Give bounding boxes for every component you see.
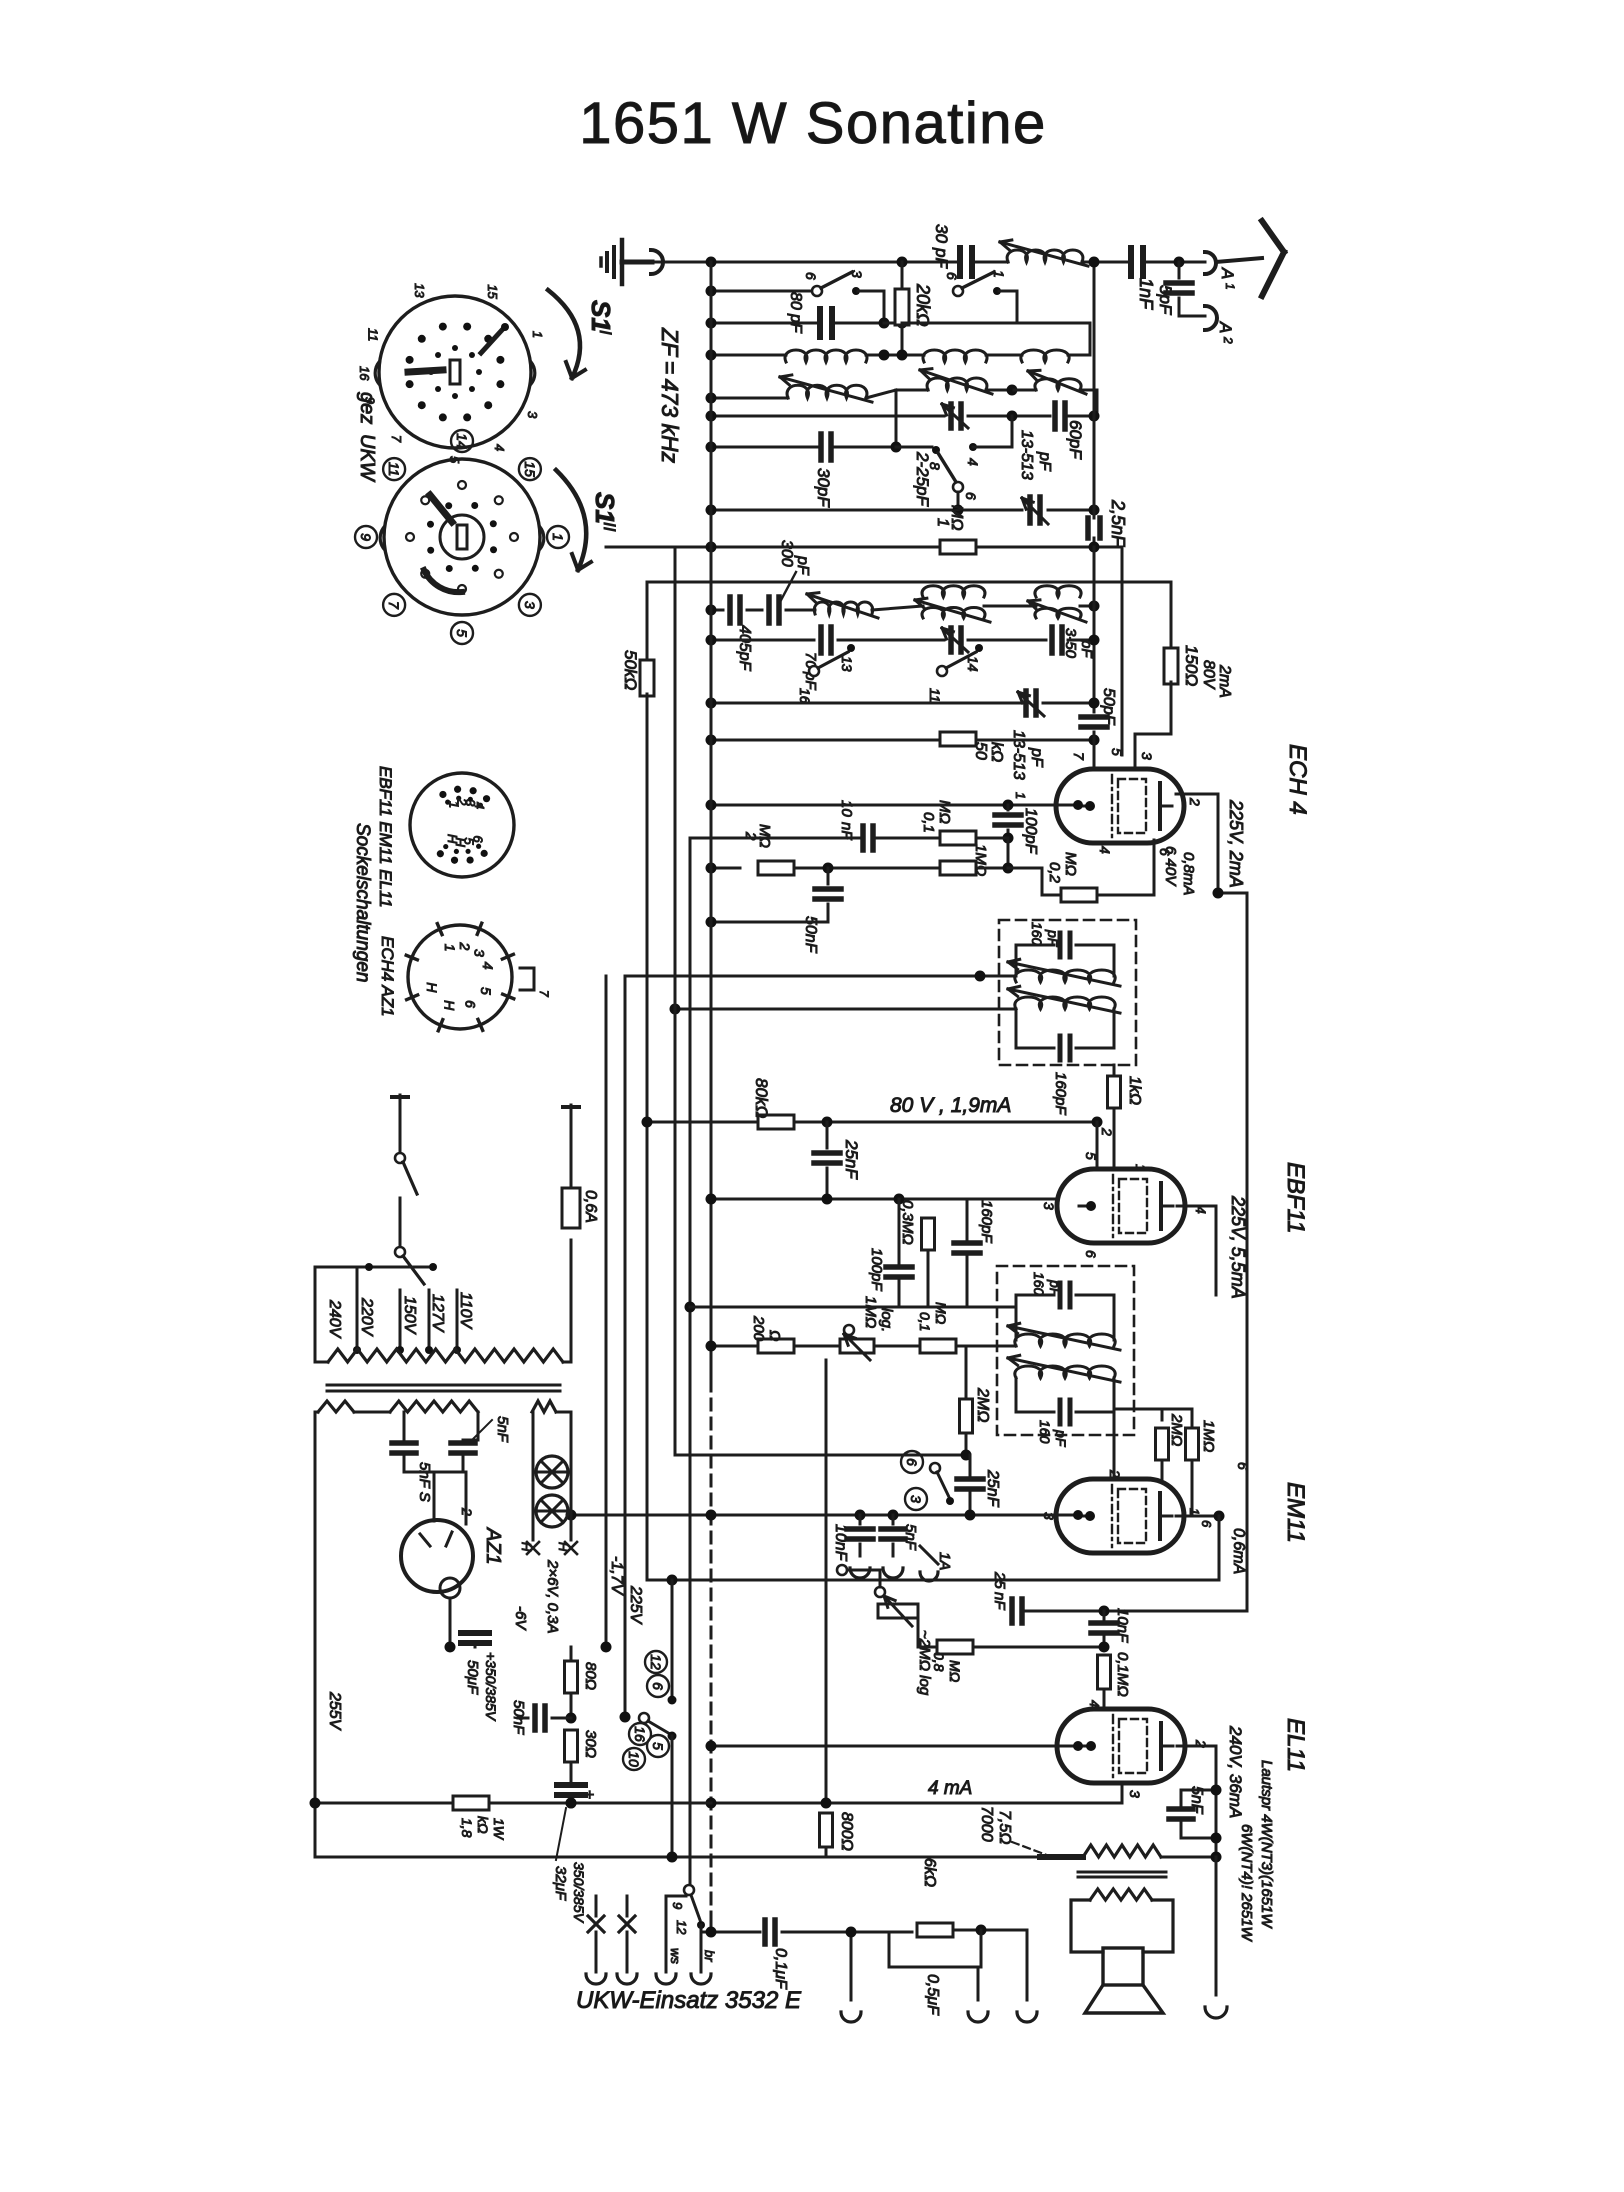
svg-text:H: H: [556, 1542, 571, 1552]
capacitor 25nF: [826, 1122, 829, 1148]
svg-text:10: 10: [838, 800, 855, 817]
wire row y=447 30pF: [711, 446, 818, 449]
svg-text:I: I: [596, 330, 615, 335]
secondary heater winding: [532, 1401, 556, 1412]
output transformer primary: [1083, 1845, 1161, 1857]
IF2 secondary tuned coil: [1015, 997, 1115, 1009]
svg-text:50μF: 50μF: [464, 1660, 481, 1695]
wire row y=805 grid: [711, 804, 1078, 807]
svg-text:gez: gez: [356, 392, 378, 424]
transformer core: [1078, 1871, 1166, 1874]
svg-text:MΩ: MΩ: [933, 1302, 949, 1325]
resistor 80Ohm: [565, 1661, 578, 1693]
wire EM11 right pin: [1176, 1515, 1219, 1518]
capacitor 10nF ratio: [859, 1515, 862, 1524]
svg-text:5: 5: [650, 1742, 666, 1750]
wire row y=922: [711, 921, 828, 924]
capacitor 25nF af: [957, 1476, 983, 1482]
svg-text:pF: pF: [1047, 1279, 1063, 1298]
wire: [1082, 261, 1128, 264]
rectifier AZ1: [401, 1520, 473, 1592]
plug connector: [651, 250, 663, 274]
svg-text:11: 11: [365, 328, 380, 342]
capacitor 100pF: [1007, 805, 1010, 810]
capacitor 50pF grid: [1081, 714, 1107, 720]
capacitor 60pF: [1052, 403, 1058, 429]
wire 5nF join: [404, 1471, 463, 1474]
wire into box: [625, 975, 1016, 978]
svg-text:13-513: 13-513: [1018, 430, 1035, 480]
speaker: [1103, 1948, 1143, 1985]
svg-text:160: 160: [1029, 922, 1045, 946]
wire stub from coil row to row C: [895, 390, 898, 447]
svg-text:H: H: [445, 834, 460, 844]
svg-text:2MΩ: 2MΩ: [1168, 1413, 1185, 1446]
resistor 2MOhm: [758, 861, 794, 875]
svg-text:10nF: 10nF: [1114, 1608, 1131, 1643]
antenna connector A2: [1205, 306, 1217, 330]
svg-text:4: 4: [492, 444, 507, 451]
svg-text:1: 1: [991, 270, 1007, 278]
svg-text:0,5μF: 0,5μF: [924, 1974, 941, 2016]
svg-text:3: 3: [1041, 1202, 1057, 1210]
svg-text:ECH 4: ECH 4: [1284, 744, 1311, 815]
capacitor 0.1uF: [762, 1920, 768, 1944]
antenna connector A1: [1205, 252, 1216, 274]
S1_II rotation arrow: [556, 470, 586, 570]
svg-text:80 V , 1,9mA: 80 V , 1,9mA: [890, 1094, 1011, 1117]
svg-text:H: H: [519, 1542, 534, 1552]
capacitor 160pF top2: [1016, 1295, 1054, 1340]
selector taps: [356, 1290, 359, 1350]
svg-text:pF: pF: [1036, 451, 1053, 472]
svg-text:6: 6: [650, 1682, 666, 1690]
capacitor 5nF b: [451, 1440, 475, 1446]
svg-text:2: 2: [1187, 797, 1203, 806]
svg-text:150Ω: 150Ω: [1182, 645, 1201, 686]
wire row y=510: [711, 509, 1022, 512]
switch S1 contact 6-3: [812, 286, 822, 296]
svg-text:25nF: 25nF: [842, 1139, 861, 1180]
svg-text:3: 3: [471, 949, 487, 957]
svg-text:2×6V, 0,3A: 2×6V, 0,3A: [544, 1559, 561, 1634]
svg-text:0,3MΩ: 0,3MΩ: [899, 1200, 916, 1245]
circled 6: [647, 1675, 669, 1697]
svg-text:3: 3: [1139, 752, 1155, 760]
svg-text:kΩ: kΩ: [988, 742, 1005, 762]
potentiometer 2MOhm log: [878, 1604, 918, 1618]
svg-text:800Ω: 800Ω: [838, 1812, 855, 1851]
svg-text:6 40V: 6 40V: [1162, 846, 1179, 887]
mains input stub 1: [399, 1095, 402, 1152]
svg-text:80kΩ: 80kΩ: [752, 1078, 771, 1118]
svg-text:7: 7: [1071, 752, 1087, 761]
svg-text:H: H: [442, 1000, 458, 1011]
wire screen row y=893: [1218, 892, 1247, 895]
oscillator feed vertical x=1094: [1093, 262, 1096, 518]
secondary rectifier winding: [390, 1401, 478, 1412]
svg-text:ZF = 473 kHz: ZF = 473 kHz: [657, 327, 683, 464]
capacitor 160pF bottom: [1016, 1009, 1054, 1048]
svg-text:log.: log.: [878, 1308, 895, 1332]
speaker ground hooks: [977, 1967, 980, 2000]
svg-text:Lautspr 4W(NT3)(1651W: Lautspr 4W(NT3)(1651W: [1258, 1760, 1275, 1929]
IF coil row 1b tuned: [711, 397, 788, 400]
svg-text:1W: 1W: [491, 1818, 507, 1841]
circled 12: [645, 1651, 667, 1673]
capacitor 5nF ratio: [892, 1515, 895, 1524]
svg-text:20kΩ: 20kΩ: [913, 283, 933, 327]
wire: [1143, 261, 1205, 264]
svg-text:pF: pF: [1078, 639, 1095, 658]
resistor 1MOhm: [940, 540, 976, 554]
resistor 2MOhm eye: [1156, 1428, 1169, 1460]
svg-text:6: 6: [1083, 1250, 1099, 1258]
voltage selector bracket: [314, 1267, 317, 1362]
svg-text:14: 14: [454, 433, 470, 449]
wire 5nF top: [1180, 1790, 1183, 1802]
svg-text:5: 5: [454, 629, 470, 637]
svg-text:pF: pF: [1028, 747, 1045, 768]
svg-text:nF: nF: [838, 822, 855, 840]
wire row y=1346 volume: [711, 1345, 758, 1348]
capacitor 32uF: [557, 1782, 585, 1788]
svg-text:1651 W Sonatine: 1651 W Sonatine: [579, 91, 1046, 156]
loop 0.5uF: [889, 1930, 981, 1967]
label 5nF: [472, 1420, 492, 1440]
capacitor 25nF out: [1009, 1599, 1015, 1623]
svg-text:5nF: 5nF: [494, 1416, 511, 1443]
svg-text:1: 1: [530, 331, 545, 338]
wire EL11 grid row: [711, 1745, 1078, 1748]
svg-text:-6V: -6V: [512, 1606, 529, 1631]
svg-text:1MΩ: 1MΩ: [1200, 1420, 1217, 1452]
svg-text:4: 4: [480, 962, 496, 970]
resistor 1.8kOhm: [453, 1796, 489, 1810]
tube ECH4: [1056, 769, 1184, 843]
svg-text:50: 50: [972, 742, 989, 760]
wire 5nF: [1180, 1825, 1183, 1838]
S1_I contact dots: [496, 356, 504, 364]
speaker wiring: [1071, 1900, 1103, 1952]
vertical heater line a: [646, 740, 649, 1580]
svg-text:80: 80: [787, 292, 804, 310]
svg-text:3: 3: [1127, 1790, 1143, 1798]
wire 405pF row y=610: [711, 609, 723, 612]
svg-text:160: 160: [1037, 1420, 1053, 1444]
svg-text:225V, 2mA: 225V, 2mA: [1226, 799, 1246, 888]
resistor 50kOhm vertical: [640, 660, 654, 696]
mains switch 1: [395, 1153, 405, 1163]
svg-text:4: 4: [965, 458, 981, 466]
fuse 0.6A: [570, 1240, 573, 1362]
svg-text:MΩ: MΩ: [936, 800, 953, 824]
wire row y=323: [711, 322, 820, 325]
svg-text:0,1μF: 0,1μF: [772, 1948, 789, 1990]
resistor 1kOhm: [1113, 1065, 1116, 1076]
capacitor 5nF tone: [1169, 1806, 1193, 1812]
svg-text:1: 1: [1187, 1508, 1202, 1515]
wire pin6 down: [1153, 840, 1156, 893]
resistor 6kOhm: [917, 1923, 953, 1937]
svg-text:7,5Ω: 7,5Ω: [996, 1810, 1013, 1844]
svg-text:pF: pF: [932, 247, 951, 269]
ground symbol: [620, 240, 625, 284]
svg-text:60pF: 60pF: [1066, 420, 1085, 460]
vertical 225V line: [624, 976, 627, 1717]
svg-text:50kΩ: 50kΩ: [621, 650, 640, 690]
svg-text:150V: 150V: [401, 1296, 418, 1335]
svg-text:80V: 80V: [1200, 660, 1217, 690]
svg-text:EBF11: EBF11: [1282, 1162, 1309, 1234]
transformer primary winding: [328, 1349, 563, 1362]
wire row y=703: [711, 702, 1022, 705]
wire down to pin5: [1121, 547, 1124, 755]
IF coil row 1a: [711, 354, 786, 357]
rotary switch wafer S1_I outline: [379, 296, 531, 448]
svg-text:6: 6: [803, 272, 819, 280]
svg-text:80Ω: 80Ω: [582, 1662, 599, 1690]
switch contacts 8-4-6: [969, 443, 977, 451]
svg-text:ECH4 AZ1: ECH4 AZ1: [378, 936, 397, 1017]
S1_II center slot: [457, 525, 467, 549]
resistor 0.2MOhm: [1061, 888, 1097, 902]
svg-text:0,8mA: 0,8mA: [1180, 852, 1197, 895]
svg-text:pF: pF: [794, 555, 811, 576]
resistor 30Ohm: [565, 1730, 578, 1762]
capacitor 3-50pF: [1049, 627, 1055, 653]
svg-text:4 mA: 4 mA: [928, 1778, 972, 1799]
svg-text:+: +: [585, 1787, 594, 1804]
wire band switch row y=291: [711, 290, 812, 293]
svg-text:Ω: Ω: [766, 1330, 783, 1341]
svg-text:1kΩ: 1kΩ: [1126, 1076, 1143, 1105]
antenna terminal X2: [626, 1896, 629, 1916]
svg-text:16: 16: [357, 366, 372, 381]
svg-text:160: 160: [1031, 1272, 1047, 1296]
svg-text:5: 5: [478, 987, 494, 995]
svg-text:240V, 36mA: 240V, 36mA: [1226, 1725, 1245, 1818]
wire row y=1803 cathode: [711, 1802, 1122, 1805]
vertical 50k feed: [646, 582, 649, 662]
svg-text:II: II: [600, 522, 619, 532]
wire eye top: [1161, 1409, 1164, 1420]
svg-text:MΩ: MΩ: [947, 1660, 963, 1683]
svg-text:nF: nF: [991, 1592, 1008, 1610]
svg-text:15: 15: [485, 284, 500, 299]
resistor 20kOhm: [895, 289, 909, 325]
wire y=1580 heater run: [647, 1579, 1219, 1582]
coil pair C3: [1035, 586, 1081, 597]
dashed box IF transformer: [999, 920, 1136, 1065]
svg-text:1: 1: [1223, 283, 1237, 290]
label 32uF 350/385V: [556, 1808, 566, 1860]
svg-text:5pF: 5pF: [1156, 285, 1175, 316]
svg-text:13: 13: [412, 283, 427, 298]
svg-text:25nF: 25nF: [984, 1469, 1001, 1508]
pilot lamps: [536, 1456, 568, 1488]
capacitor 80pF: [817, 309, 823, 337]
S1_I rotation arrow: [548, 290, 580, 378]
secondary HV winding: [318, 1401, 354, 1412]
svg-text:1nF: 1nF: [1136, 278, 1156, 310]
switch circled 6/3: [901, 1451, 923, 1473]
wire eye grid: [1161, 1460, 1164, 1479]
svg-text:5: 5: [1083, 1152, 1099, 1160]
svg-text:2: 2: [1221, 336, 1235, 344]
switch 5/16/10: [639, 1713, 649, 1723]
svg-text:0,6A: 0,6A: [582, 1190, 599, 1223]
svg-text:pF: pF: [1053, 1429, 1069, 1448]
wire EBF11 plate: [1177, 1205, 1216, 1208]
wire row y=838: [690, 837, 860, 840]
socket key symbol: [520, 968, 534, 990]
wire EL11 cathode: [1121, 1783, 1124, 1803]
capacitor 70pF: [818, 627, 824, 653]
S1_I center slot: [450, 360, 460, 384]
wire switch to rail: [671, 1736, 674, 1857]
resistor 80kOhm: [758, 1115, 794, 1129]
trimmer capacitor 13-513pF: [1027, 497, 1033, 523]
svg-text:S1: S1: [590, 492, 620, 524]
resistor 1MOhm eye: [1186, 1428, 1199, 1460]
svg-text:5nF S: 5nF S: [416, 1462, 433, 1502]
wire plate pin2: [1176, 793, 1218, 796]
svg-text:3: 3: [908, 1495, 924, 1503]
coil pair C2: [922, 586, 985, 597]
svg-text:10: 10: [626, 1751, 642, 1767]
IF3 primary tuned coil: [1015, 1334, 1115, 1346]
svg-text:225V, 5,5mA: 225V, 5,5mA: [1228, 1195, 1248, 1299]
svg-text:8: 8: [927, 462, 943, 470]
dashed box IF transformer 2: [997, 1266, 1134, 1435]
svg-text:3-50: 3-50: [1062, 628, 1079, 659]
resistor 0.1MOhm af: [920, 1339, 956, 1353]
wire y=1455 to switch 6: [675, 1454, 970, 1457]
vertical x=690: [689, 838, 692, 1886]
svg-text:UKW: UKW: [356, 434, 378, 483]
wire AZ1 plate: [433, 1472, 436, 1521]
svg-text:2: 2: [457, 941, 473, 950]
svg-text:225V: 225V: [627, 1585, 644, 1625]
svg-text:EBF11 EM11 EL11: EBF11 EM11 EL11: [376, 766, 395, 908]
tuning indicator arrow: [920, 1546, 938, 1564]
wire row y=1515 eye grid: [571, 1514, 1078, 1517]
resistor 50kOhm: [940, 732, 976, 746]
antenna terminal X1: [595, 1896, 598, 1916]
capacitor 50nF: [827, 868, 830, 884]
capacitor 5pF: [1178, 262, 1181, 278]
svg-text:12: 12: [648, 1654, 664, 1670]
tuned coil C1: [814, 602, 872, 614]
transformer core lines: [327, 1384, 560, 1387]
trimmer capacitor 13-513pF lower: [1023, 691, 1029, 715]
vertical volume return x=826: [825, 1360, 828, 1803]
wire secondary: [675, 1008, 1016, 1011]
svg-text:EL11: EL11: [1282, 1718, 1309, 1772]
svg-text:0,1: 0,1: [917, 1312, 933, 1331]
switch S1 contact 6-1: [953, 286, 963, 296]
svg-text:7: 7: [386, 601, 402, 610]
tube EM11: [1056, 1479, 1184, 1553]
resistor 0.1MOhm grid EL11: [1098, 1655, 1111, 1689]
wire 150R feed: [1170, 582, 1173, 650]
wire eye screen feed: [1113, 1409, 1116, 1479]
svg-text:16: 16: [797, 688, 813, 704]
wire antenna: [1216, 258, 1262, 262]
wire row y=1199: [711, 1198, 1080, 1201]
resistor 800Ohm: [820, 1813, 833, 1847]
label 300pF with pointer: [780, 572, 796, 602]
potentiometer 1MOhm log: [840, 1339, 874, 1353]
svg-text:13-513: 13-513: [1010, 730, 1027, 780]
svg-text:160pF: 160pF: [978, 1200, 995, 1243]
svg-text:14: 14: [965, 656, 981, 672]
svg-text:350/385V: 350/385V: [571, 1862, 587, 1924]
svg-text:6: 6: [462, 1000, 478, 1008]
wire: [902, 322, 1090, 325]
tube EBF11: [1057, 1169, 1185, 1243]
svg-text:9: 9: [670, 1902, 685, 1909]
capacitor 30pF top: [957, 248, 963, 276]
IF2 primary tuned coil: [1015, 970, 1115, 982]
svg-text:S1: S1: [586, 300, 616, 332]
svg-text:6: 6: [963, 492, 979, 500]
tube socket ECH4 AZ1: [408, 925, 512, 1029]
wire EBF plate into box: [1215, 1266, 1218, 1295]
svg-text:5nF: 5nF: [902, 1524, 919, 1551]
S1_II inner gear circle: [440, 515, 484, 559]
resistor 0.8MOhm: [937, 1640, 973, 1654]
S1_II wiper: [430, 495, 452, 522]
capacitor 50nF smoothing: [532, 1706, 538, 1730]
svg-text:11: 11: [927, 688, 943, 703]
svg-text:kΩ: kΩ: [475, 1816, 491, 1834]
rotary switch wafer S1_II outline: [384, 459, 540, 615]
svg-text:30: 30: [932, 224, 951, 243]
capacitor 2.5nF: [1085, 518, 1091, 538]
svg-text:30Ω: 30Ω: [582, 1730, 599, 1758]
svg-text:AZ1: AZ1: [482, 1527, 504, 1565]
wire plate to IF3 box: [1215, 1206, 1218, 1266]
wire screen feed to EBF11: [1096, 1122, 1099, 1166]
resistor 1MOhm grid leak: [940, 861, 976, 875]
svg-text:5: 5: [1109, 748, 1125, 756]
capacitor 160pF coupling: [954, 1240, 980, 1246]
wire row y=1857: [315, 1856, 1040, 1859]
capacitor 160pF bottom2: [1016, 1378, 1054, 1412]
svg-text:1: 1: [1013, 792, 1028, 799]
tuned coil oscillator top: [1007, 250, 1083, 262]
svg-text:110V: 110V: [457, 1292, 474, 1330]
svg-text:6: 6: [1235, 1462, 1251, 1470]
svg-text:240V: 240V: [326, 1299, 343, 1339]
right bus down: [1246, 893, 1249, 1608]
wire row y=416: [711, 415, 944, 418]
svg-text:0,1MΩ: 0,1MΩ: [1114, 1652, 1131, 1697]
wire: [832, 322, 884, 325]
svg-text:2,5nF: 2,5nF: [1108, 499, 1128, 547]
svg-text:1MΩ: 1MΩ: [862, 1296, 879, 1328]
resistor 150Ohm vertical: [1164, 648, 1178, 684]
svg-text:0,6mA: 0,6mA: [1230, 1528, 1247, 1574]
capacitor 1nF antenna: [1128, 248, 1134, 276]
svg-text:3: 3: [849, 270, 865, 278]
svg-text:1: 1: [1133, 1164, 1149, 1172]
svg-text:220V: 220V: [358, 1297, 375, 1337]
svg-text:6: 6: [904, 1458, 920, 1466]
svg-text:200: 200: [750, 1315, 767, 1342]
